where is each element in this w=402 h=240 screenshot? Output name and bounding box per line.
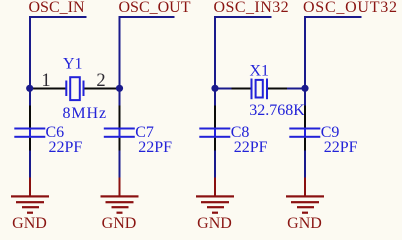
wire OSC_OUT32 vertical: [304, 16, 306, 106]
ground GND (C7): [101, 178, 139, 214]
wire OSC_IN32 vertical: [214, 16, 216, 106]
svg-text:2: 2: [96, 71, 105, 91]
pin Y1.1 line (black): [30, 88, 66, 90]
svg-text:GND: GND: [287, 215, 322, 232]
svg-text:GND: GND: [12, 215, 47, 232]
wire C7 to GND: [119, 151, 121, 178]
wire C6 to GND: [29, 151, 31, 178]
junction node OSC_IN: [26, 85, 33, 92]
svg-text:22PF: 22PF: [324, 139, 358, 156]
svg-text:22PF: 22PF: [234, 139, 268, 156]
junction node OSC_IN32: [211, 85, 218, 92]
crystal Y1: [65, 77, 84, 100]
crystal X1: [251, 79, 269, 100]
svg-text:GND: GND: [197, 215, 232, 232]
wire X1 to OSC_OUT32: [287, 88, 305, 90]
ground GND (C6): [11, 178, 49, 214]
wire OSC_IN vertical: [29, 16, 31, 106]
capacitor C9: [289, 106, 320, 151]
svg-text:Y1: Y1: [63, 56, 83, 73]
wire OSC_OUT32 horizontal: [304, 16, 362, 18]
capacitor C8: [199, 106, 230, 151]
pin Y1.2 line (black): [85, 88, 120, 90]
svg-text:OSC_IN: OSC_IN: [29, 0, 85, 16]
svg-text:8MHz: 8MHz: [63, 105, 107, 122]
ground GND (C8): [196, 178, 234, 214]
wire OSC_IN32 horizontal: [214, 16, 272, 18]
capacitor C6: [14, 106, 45, 151]
capacitor C7: [104, 106, 135, 151]
wire OSC_OUT horizontal: [119, 16, 175, 18]
svg-text:OSC_OUT: OSC_OUT: [119, 0, 191, 16]
ground GND (C9): [286, 178, 324, 214]
wire C8 to GND: [214, 151, 216, 178]
junction node OSC_OUT32: [301, 85, 308, 92]
svg-text:22PF: 22PF: [49, 139, 83, 156]
svg-text:22PF: 22PF: [138, 139, 172, 156]
pin X1.2 line (black): [268, 88, 287, 90]
wire C9 to GND: [304, 151, 306, 178]
svg-text:1: 1: [41, 71, 50, 91]
svg-text:X1: X1: [250, 63, 270, 80]
svg-text:OSC_OUT32: OSC_OUT32: [303, 0, 398, 16]
wire OSC_IN32 to X1: [215, 88, 233, 90]
svg-text:32.768K: 32.768K: [249, 102, 305, 119]
svg-text:GND: GND: [102, 215, 137, 232]
svg-text:OSC_IN32: OSC_IN32: [214, 0, 290, 16]
wire OSC_IN horizontal: [29, 16, 87, 18]
pin X1.1 line (black): [232, 88, 251, 90]
junction node OSC_OUT: [116, 85, 123, 92]
wire OSC_OUT vertical: [119, 16, 121, 106]
